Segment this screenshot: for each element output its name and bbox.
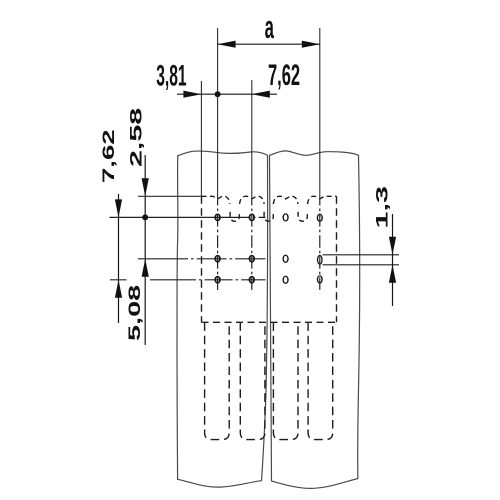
dashed solder-pin slot outline 4 bbox=[308, 322, 333, 439]
svg-text:7,62: 7,62 bbox=[268, 59, 300, 92]
holes right board col 2 (oblong) bbox=[317, 214, 323, 222]
dashed connector contour bottom step line bbox=[202, 321, 337, 323]
row3 extension tick on line A bbox=[110, 279, 127, 281]
dim 1,3 reference line top (tangent to oblong hole) bbox=[323, 254, 400, 256]
left dimension line B (2,58 / 5,08) bbox=[144, 155, 146, 345]
svg-text:2,58: 2,58 bbox=[127, 108, 146, 167]
dashed solder-pin slot outline 1 bbox=[205, 322, 230, 439]
dashed solder-pin slot outline 2 bbox=[240, 322, 265, 439]
vertical centerline col 1 / extension for dim a and 3,81 bbox=[217, 28, 219, 200]
PCB board section right (wavy torn edges) bbox=[270, 151, 360, 488]
vertical centerline right col 2 / extension for dim a bbox=[319, 28, 321, 200]
svg-text:a: a bbox=[265, 10, 275, 45]
holes right board col 1 bbox=[282, 213, 288, 221]
svg-text:3,81: 3,81 bbox=[156, 59, 186, 93]
left dimension line A (7,62 vertical) bbox=[118, 194, 120, 323]
holes left board: bold rings 2 cols x 3 rows bbox=[214, 214, 221, 222]
dim 1,3 vertical dimension line bbox=[392, 214, 394, 306]
dashed scalloped plug contour over hole row 1 bbox=[202, 196, 337, 221]
horizontal centerline hole row 2 bbox=[138, 258, 266, 260]
dim 1,3 reference line bottom bbox=[323, 264, 400, 266]
svg-text:7,62: 7,62 bbox=[98, 129, 117, 183]
dashed connector contour left edge bbox=[201, 196, 203, 322]
dashed connector contour right edge bbox=[336, 196, 338, 322]
svg-text:1,3: 1,3 bbox=[373, 186, 392, 229]
svg-text:5,08: 5,08 bbox=[125, 285, 144, 341]
extension line at contour top for 2,58 bbox=[138, 195, 202, 197]
horizontal centerline hole row 3 bbox=[150, 279, 266, 281]
dashed solder-pin slot outline 3 bbox=[273, 322, 298, 439]
PCB board section left (wavy torn edges) bbox=[177, 151, 268, 487]
dimension 3,81 / 7,62 top: shared line bbox=[177, 93, 277, 95]
vertical centerline col 2 / extension for dim 7,62 bbox=[251, 80, 253, 200]
horizontal centerline hole row 1 bbox=[110, 216, 247, 218]
extension line for 3,81 left terminator bbox=[200, 81, 202, 196]
dot terminator at col1 bbox=[215, 91, 221, 97]
dimension a: dimension line with outward arrows bbox=[218, 43, 320, 45]
